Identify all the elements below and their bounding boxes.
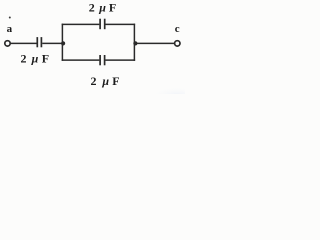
capacitor C1 right plate	[40, 37, 42, 47]
wire: right junction to terminal c	[136, 42, 174, 44]
svg-text:2μF: 2μF	[21, 51, 50, 65]
capacitor C3 right plate	[104, 55, 106, 65]
svg-text:a: a	[7, 23, 13, 35]
svg-text:2μF: 2μF	[89, 0, 116, 14]
wire: right vertical of parallel branch	[133, 24, 135, 61]
wire: bottom branch right segment	[105, 59, 135, 61]
capacitor C1 2uF (series) left plate	[36, 37, 38, 47]
wire: top branch right segment	[106, 23, 136, 25]
wire: terminal a to capacitor C1	[11, 42, 37, 44]
wire: bottom branch left segment	[62, 59, 100, 61]
stray speck above label a	[9, 17, 11, 19]
capacitor C2 2uF (top) left plate	[99, 19, 101, 30]
capacitor C3 2uF (bottom) left plate	[99, 55, 101, 65]
terminal c (circle)	[175, 41, 180, 46]
wire: left vertical of parallel branch	[61, 24, 63, 61]
node b junction dot (left)	[61, 41, 65, 45]
wire: top branch left segment	[62, 23, 100, 25]
capacitor C2 right plate	[104, 19, 106, 30]
svg-text:c: c	[175, 23, 180, 35]
wire: C1 to node b (left junction)	[42, 42, 62, 44]
node d junction dot (right)	[133, 41, 137, 45]
terminal a (circle)	[5, 41, 10, 46]
svg-text:2μF: 2μF	[91, 74, 120, 88]
paper background	[0, 0, 185, 94]
